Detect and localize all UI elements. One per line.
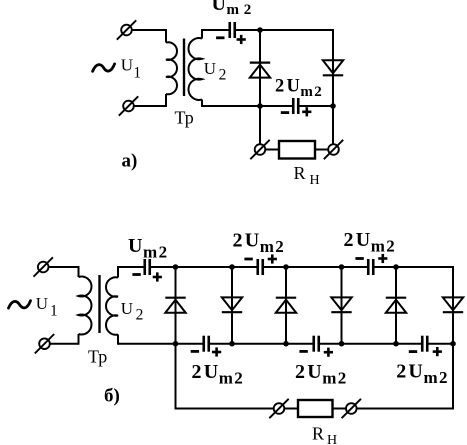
label 2Um2 for C6 (circuit b) bbox=[192, 361, 243, 388]
label Um2 for C1 (circuit a) bbox=[212, 0, 252, 18]
minus sign of C7 (circuit b) bbox=[299, 350, 307, 353]
node T1 junction dot (circuit b) bbox=[173, 264, 179, 270]
node B2 junction dot (circuit b) bbox=[229, 341, 235, 347]
svg-text:2: 2 bbox=[396, 361, 406, 383]
label Rn (circuit a) bbox=[294, 163, 320, 188]
plus sign of C7 (circuit b) bbox=[324, 351, 333, 354]
svg-text:б): б) bbox=[104, 386, 120, 407]
wire load row right to right vertical (circuit b) bbox=[356, 408, 455, 410]
transformer Tr primary winding (circuit a) bbox=[166, 29, 177, 107]
wire top rail: C5 to node N5 to top-right corner (circuit b) bbox=[374, 266, 455, 268]
wire from input terminal X2 to primary (circuit a) bbox=[129, 105, 167, 107]
capacitor C1 value Um2 (circuit a) bbox=[230, 22, 235, 38]
wire output terminal to resistor Rn (circuit b) bbox=[283, 408, 298, 410]
svg-text:m: m bbox=[322, 369, 336, 388]
wire bottom rail: C7 to node B4 to node B5 (circuit b) bbox=[319, 343, 423, 345]
label U2 (circuit b) bbox=[121, 299, 144, 324]
node T2 junction dot (circuit b) bbox=[229, 264, 235, 270]
label U2 (circuit a) bbox=[204, 59, 227, 84]
plus sign of C5 (circuit b) bbox=[378, 257, 387, 260]
svg-text:U: U bbox=[307, 361, 321, 383]
diode VD3 cathode-up (circuit b) bbox=[276, 298, 296, 313]
plus sign of C8 (circuit b) bbox=[433, 350, 442, 353]
wire bottom rail: C6 to node B2 to node B3 (circuit b) bbox=[209, 343, 314, 345]
label 2Um2 for C7 (circuit b) bbox=[295, 361, 346, 388]
wire top rail: C4 to node N3 to node N4 (circuit b) bbox=[263, 266, 368, 268]
wire node N3 down to output terminal (circuit a) bbox=[332, 106, 334, 145]
wire node N2 to capacitor C2 (circuit a) bbox=[260, 105, 293, 107]
svg-text:m: m bbox=[371, 237, 385, 256]
svg-text:2: 2 bbox=[233, 230, 243, 252]
wire resistor Rn to output terminal (circuit b) bbox=[333, 408, 348, 410]
svg-text:2: 2 bbox=[244, 2, 252, 18]
wire resistor Rn right to output terminal (circuit a) bbox=[315, 149, 330, 151]
svg-text:U: U bbox=[356, 229, 370, 251]
wire right vertical from top rail through diode VD6 to load row (circuit b) bbox=[452, 266, 454, 409]
capacitor C5 value 2Um2 on top rail (circuit b) bbox=[368, 259, 373, 275]
AC source symbol (circuit a) bbox=[93, 64, 115, 71]
wire branch of diode VD2 from top rail to bottom rail (circuit b) bbox=[231, 267, 233, 344]
wire C1 to node N1 and on to top-right corner (circuit a) bbox=[235, 29, 334, 31]
svg-text:2: 2 bbox=[338, 369, 347, 388]
wire node N2 down to output terminal (circuit a) bbox=[259, 106, 261, 145]
terminal X2 input bottom (circuit a) bbox=[119, 96, 138, 115]
minus sign of C4 (circuit b) bbox=[244, 258, 252, 261]
wire bottom rail: C8 to right vertical (circuit b) bbox=[428, 343, 454, 345]
node B3 junction dot (circuit b) bbox=[283, 341, 289, 347]
node N2 junction dot (circuit a) bbox=[257, 103, 263, 109]
wire load row left to output terminal (circuit b) bbox=[175, 408, 275, 410]
capacitor C3 value Um2 on top rail (circuit b) bbox=[145, 259, 150, 275]
svg-text:m: m bbox=[260, 237, 274, 256]
svg-text:U: U bbox=[121, 299, 133, 318]
wire branch of diode VD4 from top rail to bottom rail (circuit b) bbox=[341, 267, 343, 344]
transformer Tr secondary winding (circuit a) bbox=[188, 29, 202, 107]
svg-text:2: 2 bbox=[219, 67, 227, 84]
wire secondary top to capacitor C1 (circuit a) bbox=[202, 29, 229, 31]
diode VD2 cathode-down (circuit b) bbox=[222, 297, 242, 312]
wire branch of diode VD1 from top rail to bottom rail (circuit b) bbox=[175, 267, 177, 344]
svg-text:2: 2 bbox=[439, 368, 448, 387]
svg-text:Тр: Тр bbox=[88, 346, 107, 366]
terminal output left (circuit a) bbox=[250, 140, 269, 159]
terminal X1 input top (circuit a) bbox=[117, 20, 136, 39]
svg-text:m: m bbox=[143, 243, 157, 262]
node B5 junction dot (circuit b) bbox=[393, 341, 399, 347]
svg-text:m: m bbox=[300, 84, 313, 100]
node N1 junction dot (circuit a) bbox=[257, 27, 263, 33]
wire branch of diode VD3 from top rail to bottom rail (circuit b) bbox=[285, 267, 287, 344]
capacitor C8 value 2Um2 on bottom rail (circuit b) bbox=[422, 336, 427, 352]
wire C2 to node N3 (circuit a) bbox=[299, 105, 334, 107]
svg-text:Н: Н bbox=[310, 173, 320, 188]
plus sign of C2 (circuit a) bbox=[302, 111, 311, 114]
terminal output right (circuit b) bbox=[342, 399, 361, 418]
transformer Tr primary winding (circuit b) bbox=[79, 266, 92, 345]
transformer Tr core (circuit a) bbox=[183, 39, 185, 97]
node B1 junction dot (circuit b) bbox=[173, 341, 179, 347]
diode VD5 cathode-up (circuit b) bbox=[386, 298, 406, 313]
wire from input terminal X1 to primary (circuit a) bbox=[127, 29, 167, 31]
terminal output left (circuit b) bbox=[269, 399, 288, 418]
capacitor C2 value 2Um2 (circuit a) bbox=[293, 98, 298, 114]
svg-text:Н: Н bbox=[327, 433, 337, 445]
svg-text:U: U bbox=[408, 361, 422, 383]
minus sign of C3 (circuit b) bbox=[132, 273, 140, 276]
svg-text:U: U bbox=[36, 294, 48, 313]
wire bottom rail: secondary to node B1 (circuit b) bbox=[118, 343, 204, 345]
label 2Um2 for C5 (circuit b) bbox=[344, 229, 395, 256]
svg-text:U: U bbox=[204, 59, 216, 78]
svg-text:1: 1 bbox=[133, 64, 141, 81]
wire node N1 down through diode VD1 branch to node N2 (circuit a) bbox=[259, 30, 261, 106]
capacitor C7 value 2Um2 on bottom rail (circuit b) bbox=[314, 336, 319, 352]
label 2Um2 for C8 (circuit b) bbox=[396, 361, 447, 388]
svg-text:2: 2 bbox=[314, 84, 322, 100]
wire input terminal X1 to primary (circuit b) bbox=[43, 266, 78, 268]
diode VD1 cathode-up on middle branch (circuit a) bbox=[250, 63, 270, 78]
label Um2 for C3 (circuit b) bbox=[128, 235, 167, 262]
svg-text:R: R bbox=[294, 163, 306, 183]
minus sign of C5 (circuit b) bbox=[355, 257, 363, 260]
capacitor C4 value 2Um2 on top rail (circuit b) bbox=[258, 259, 263, 275]
wire secondary bottom to node N2 (circuit a) bbox=[202, 105, 260, 107]
svg-text:2: 2 bbox=[136, 307, 144, 324]
label Rn (circuit b) bbox=[312, 424, 337, 445]
svg-text:2: 2 bbox=[295, 361, 305, 383]
svg-text:Тр: Тр bbox=[175, 108, 194, 128]
terminal output right (circuit a) bbox=[324, 140, 343, 159]
minus sign of C1 (circuit a) bbox=[216, 36, 224, 39]
minus sign of C6 (circuit b) bbox=[191, 350, 199, 353]
svg-text:2: 2 bbox=[275, 77, 284, 97]
resistor Rn load (circuit a) bbox=[279, 141, 315, 159]
terminal X1 input top (circuit b) bbox=[34, 257, 53, 276]
svg-text:U: U bbox=[121, 56, 133, 75]
svg-text:а): а) bbox=[122, 151, 138, 172]
node T3 junction dot (circuit b) bbox=[283, 264, 289, 270]
svg-text:2: 2 bbox=[159, 243, 168, 262]
AC source symbol (circuit b) bbox=[9, 301, 31, 308]
wire input terminal X2 to primary (circuit b) bbox=[45, 343, 79, 345]
capacitor C6 value 2Um2 on bottom rail (circuit b) bbox=[204, 336, 209, 352]
svg-text:R: R bbox=[312, 424, 324, 444]
svg-text:2: 2 bbox=[234, 369, 243, 388]
label 2Um2 for C2 (circuit a) bbox=[275, 77, 322, 101]
svg-text:m: m bbox=[219, 369, 233, 388]
resistor Rn load (circuit b) bbox=[298, 400, 333, 417]
node B6 junction dot at right vertical (circuit b) bbox=[450, 341, 456, 347]
node N3 junction dot (circuit a) bbox=[330, 103, 336, 109]
wire branch of diode VD5 from top rail to bottom rail (circuit b) bbox=[395, 267, 397, 344]
wire output terminal to resistor Rn left (circuit a) bbox=[264, 149, 279, 151]
diode VD4 cathode-down (circuit b) bbox=[331, 297, 351, 312]
label U1 (circuit b) bbox=[36, 294, 58, 320]
minus sign of C8 (circuit b) bbox=[409, 350, 417, 353]
wire top rail: C3 to node N1 to node N2 (circuit b) bbox=[150, 266, 258, 268]
wire node B1 down to load row (circuit b) bbox=[175, 344, 177, 409]
svg-text:2: 2 bbox=[192, 361, 202, 383]
svg-text:2: 2 bbox=[386, 237, 395, 256]
svg-text:U: U bbox=[286, 77, 299, 97]
node T4 junction dot (circuit b) bbox=[339, 264, 345, 270]
svg-text:2: 2 bbox=[344, 229, 354, 251]
node T5 junction dot (circuit b) bbox=[393, 264, 399, 270]
svg-text:U: U bbox=[212, 0, 226, 15]
wire right side vertical through diode VD2 (circuit a) bbox=[332, 29, 334, 106]
svg-text:U: U bbox=[128, 235, 142, 257]
svg-text:m: m bbox=[423, 368, 437, 387]
node B4 junction dot (circuit b) bbox=[339, 341, 345, 347]
label 2Um2 for C4 (circuit b) bbox=[233, 230, 284, 257]
transformer Tr core (circuit b) bbox=[98, 275, 100, 333]
plus sign of C3 (circuit b) bbox=[153, 276, 162, 279]
label U1 (circuit a) bbox=[121, 56, 141, 82]
wire top rail: secondary to capacitor C3 (circuit b) bbox=[118, 266, 145, 268]
svg-text:U: U bbox=[245, 230, 259, 252]
transformer Tr secondary winding (circuit b) bbox=[106, 266, 118, 345]
minus sign of C2 (circuit a) bbox=[281, 111, 289, 114]
plus sign of C6 (circuit b) bbox=[212, 351, 221, 354]
svg-text:U: U bbox=[204, 361, 218, 383]
terminal X2 input bottom (circuit b) bbox=[35, 334, 54, 353]
diode VD1 cathode-up (circuit b) bbox=[165, 298, 185, 313]
svg-text:m: m bbox=[227, 2, 240, 18]
diode VD6 cathode-down on right vertical (circuit b) bbox=[443, 297, 463, 312]
svg-text:2: 2 bbox=[275, 237, 284, 256]
plus sign of C1 (circuit a) bbox=[237, 38, 246, 41]
svg-text:1: 1 bbox=[50, 303, 58, 320]
diode VD2 cathode-down on right branch (circuit a) bbox=[323, 60, 343, 75]
plus sign of C4 (circuit b) bbox=[268, 258, 277, 261]
